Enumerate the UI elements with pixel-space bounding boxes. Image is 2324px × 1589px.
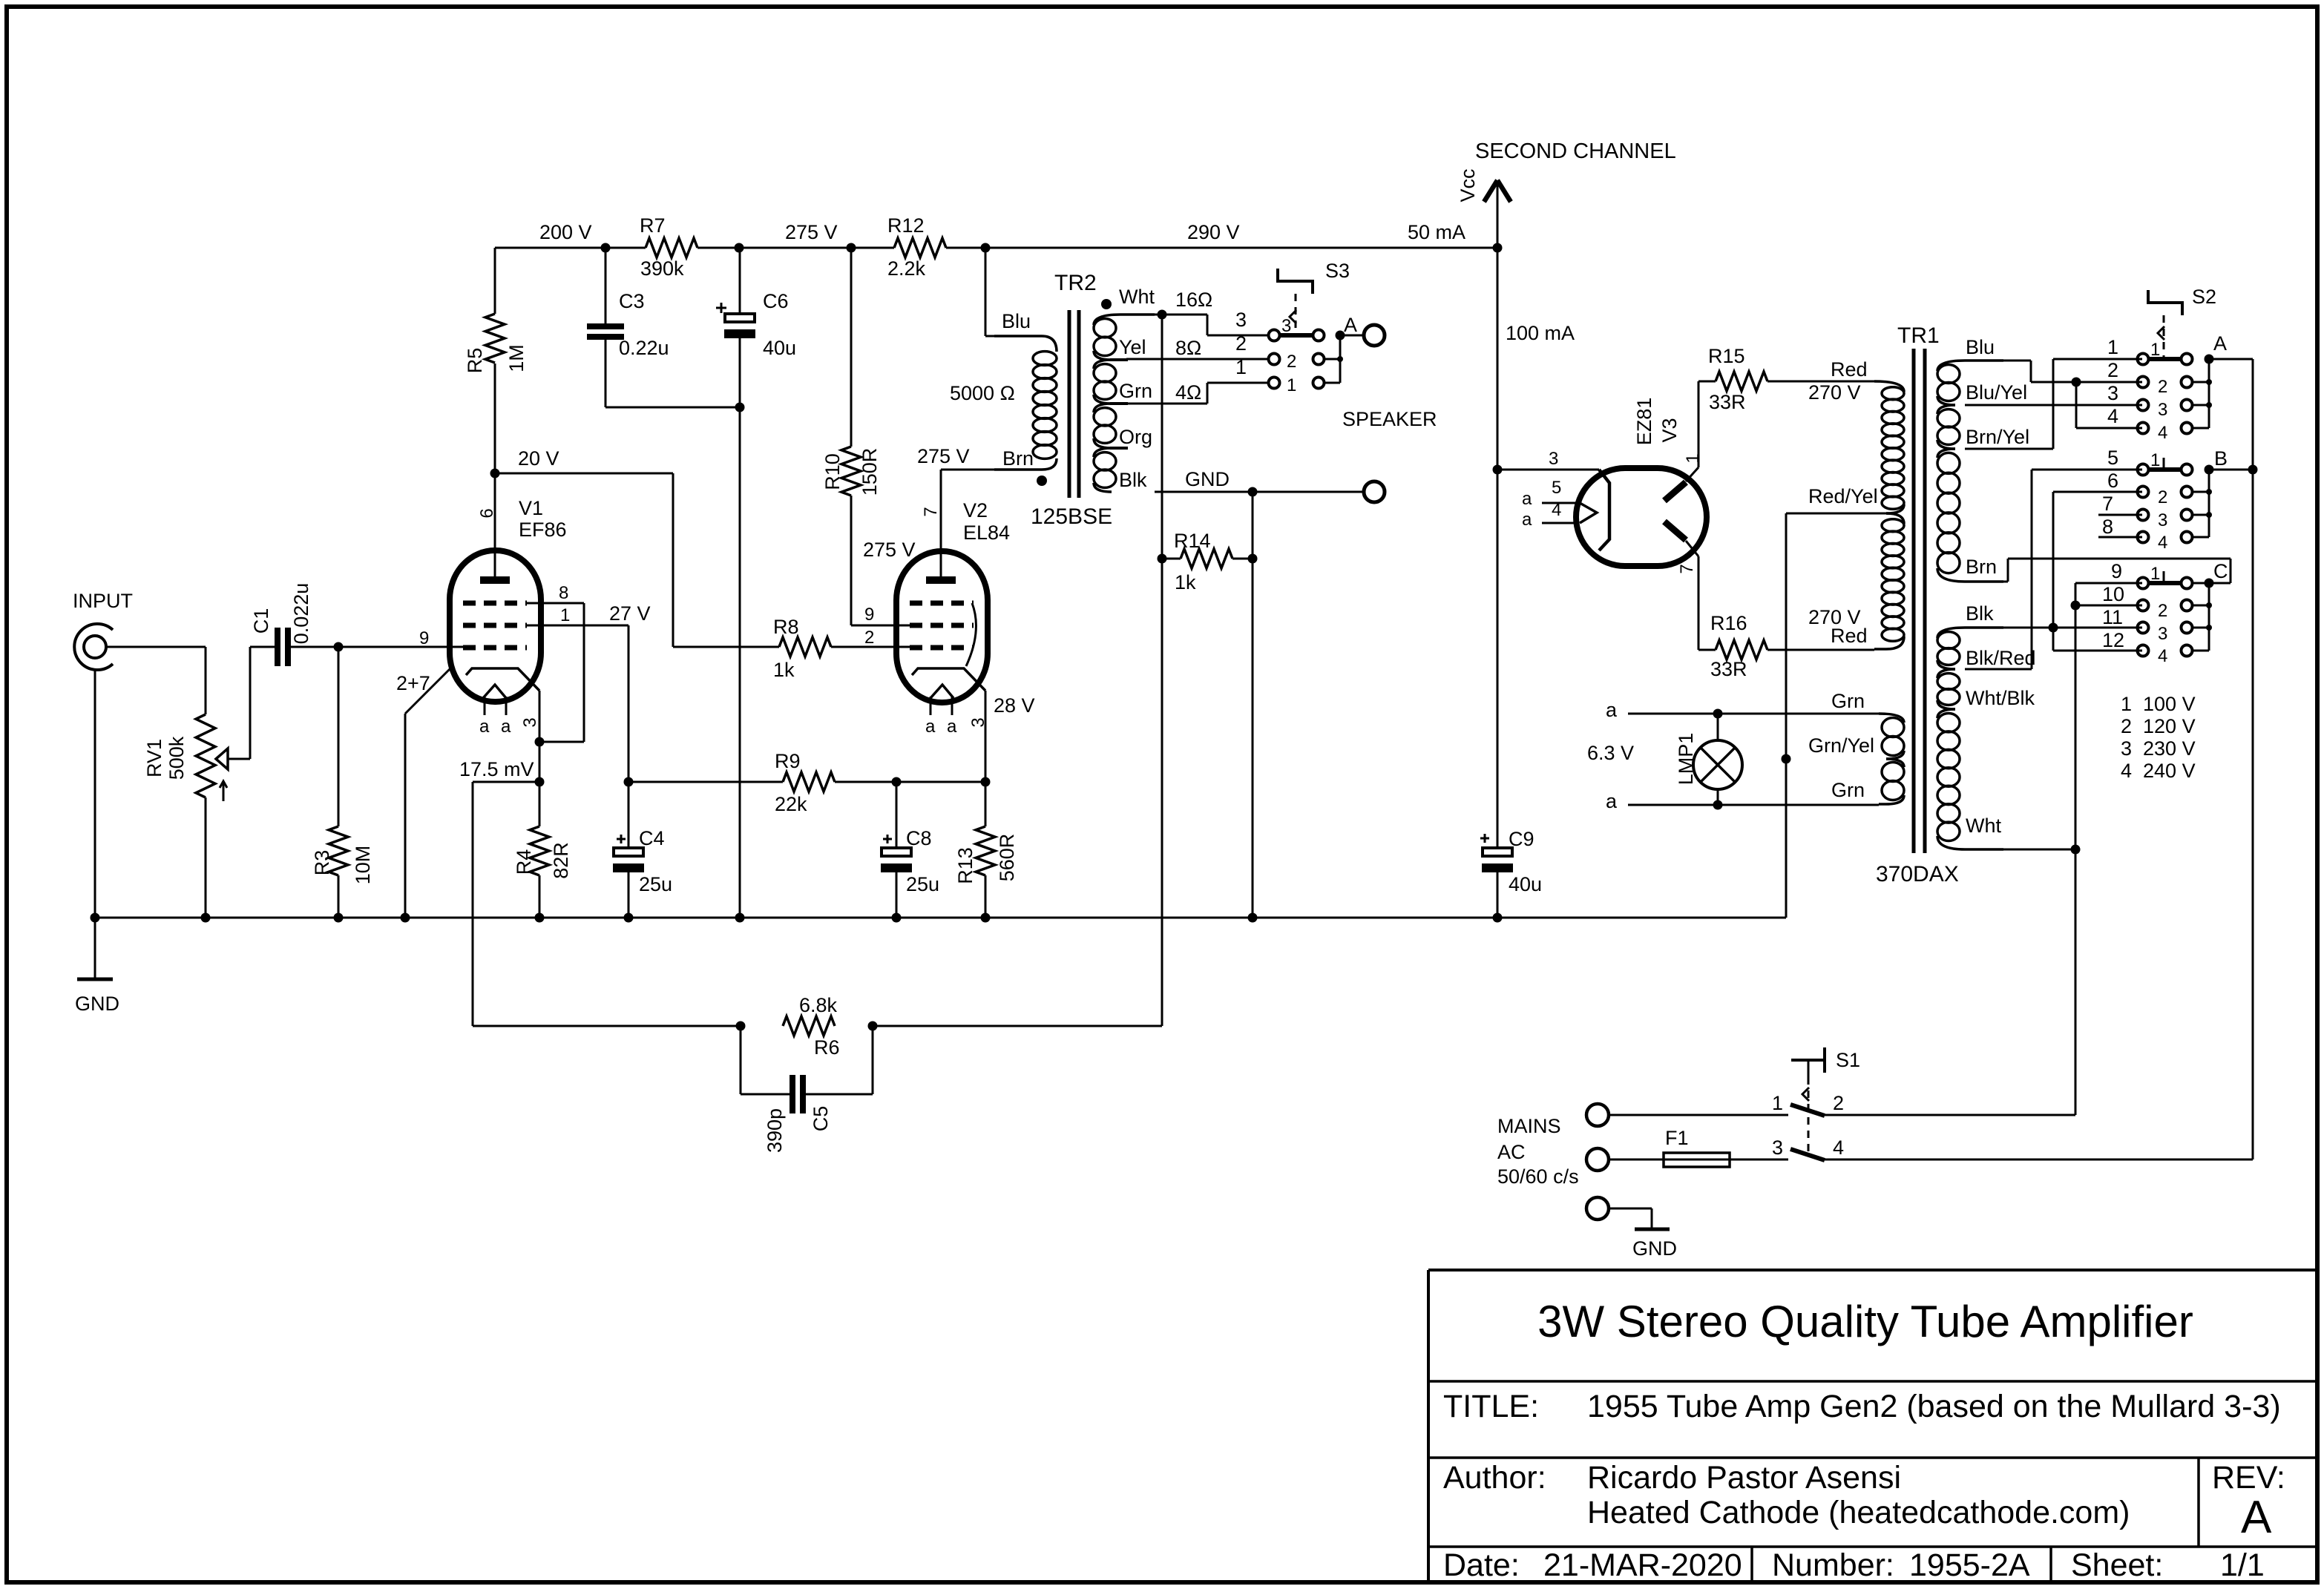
TR2 secondary tap Yel	[1110, 358, 1128, 361]
svg-text:RV1: RV1	[143, 739, 165, 777]
svg-text:4: 4	[2158, 533, 2167, 553]
svg-text:4: 4	[1552, 500, 1561, 520]
svg-text:500k: 500k	[165, 736, 188, 780]
V1 pin 8 wire	[526, 602, 584, 605]
svg-text:1: 1	[2107, 336, 2118, 358]
junction	[892, 913, 902, 923]
svg-text:EL84: EL84	[963, 522, 1010, 544]
wire C1 to V1 pin 9	[338, 646, 463, 648]
wire main ground rail	[95, 917, 1786, 919]
svg-text:Blu: Blu	[1002, 310, 1031, 332]
S2 block B left contacts	[2138, 464, 2149, 476]
svg-text:22k: 22k	[775, 793, 807, 815]
svg-text:25u: 25u	[906, 873, 939, 895]
resistor R14	[1162, 558, 1181, 560]
junction	[334, 913, 344, 923]
mains connector L	[1586, 1104, 1609, 1126]
svg-text:28 V: 28 V	[994, 694, 1035, 717]
svg-text:Red: Red	[1831, 625, 1868, 647]
TR1 mains winding 2	[1937, 628, 2003, 638]
svg-text:3: 3	[520, 717, 540, 727]
svg-text:3: 3	[1549, 449, 1558, 469]
capacitor C5	[740, 1026, 742, 1094]
S2 block B stub wires 7 8	[2098, 514, 2142, 516]
V1 anode plate pin 6	[494, 473, 496, 580]
wire 2+7 shield to ground	[405, 668, 450, 714]
S3 right contacts	[1313, 330, 1325, 341]
svg-text:GND: GND	[75, 993, 119, 1015]
mains connector N	[1586, 1148, 1609, 1171]
svg-text:4 240 V: 4 240 V	[2121, 760, 2196, 782]
TR1 heater winding	[1879, 714, 1904, 723]
svg-text:275 V: 275 V	[785, 221, 838, 243]
TR2 secondary tap Org stub	[1110, 447, 1128, 450]
V1 heater chevron	[483, 685, 506, 698]
junction	[2205, 355, 2214, 364]
junction	[1248, 487, 1258, 497]
svg-text:3: 3	[2158, 400, 2167, 420]
svg-text:1: 1	[1287, 375, 1296, 395]
svg-text:LMP1: LMP1	[1675, 733, 1697, 786]
junction	[735, 403, 745, 412]
svg-text:a: a	[1606, 699, 1618, 721]
svg-text:50/60 c/s: 50/60 c/s	[1497, 1165, 1579, 1188]
TR2 secondary phase dot	[1101, 299, 1112, 309]
svg-text:4Ω: 4Ω	[1175, 381, 1201, 404]
svg-text:9: 9	[864, 605, 874, 625]
lamp LMP1	[1717, 714, 1719, 740]
junction	[201, 913, 211, 923]
svg-text:8: 8	[559, 583, 568, 603]
V3 heater chevron	[1580, 503, 1597, 523]
resistor R8	[779, 637, 831, 657]
resistor R3	[338, 647, 340, 826]
junction	[1248, 913, 1258, 923]
TR2 primary winding 5000 ohm	[994, 336, 1057, 352]
resistor R12	[894, 238, 946, 257]
svg-text:S3: S3	[1325, 260, 1350, 282]
V3 anode plate top pin 1	[1664, 482, 1686, 501]
ground symbol GND input	[77, 978, 113, 981]
wire feedback from R6 to V1 cathode	[473, 781, 539, 783]
svg-text:C3: C3	[619, 290, 645, 312]
svg-text:R7: R7	[640, 214, 666, 237]
V1 grid g1 row	[463, 645, 527, 651]
svg-text:9: 9	[419, 628, 429, 648]
wire L to S1	[1609, 1114, 1788, 1116]
svg-text:Grn/Yel: Grn/Yel	[1808, 734, 1874, 757]
TR2 core	[1068, 310, 1071, 498]
svg-text:5: 5	[1552, 478, 1561, 498]
svg-text:40u: 40u	[1509, 873, 1542, 895]
wire fuse to S1	[1730, 1159, 1788, 1161]
wire Blu tie to row 4	[2075, 382, 2078, 428]
svg-text:9: 9	[2111, 560, 2122, 582]
svg-text:C5: C5	[810, 1106, 832, 1132]
resistor R6	[783, 1016, 835, 1036]
svg-text:1k: 1k	[773, 659, 795, 681]
svg-text:6: 6	[2107, 470, 2118, 492]
S3 output tie to jack A	[1324, 358, 1340, 361]
V1 grid g2 row	[463, 623, 527, 628]
wire 20V to R8	[495, 473, 673, 475]
svg-text:Red/Yel: Red/Yel	[1808, 485, 1878, 507]
svg-text:R12: R12	[887, 214, 925, 237]
svg-text:2: 2	[2107, 359, 2118, 381]
title block frame	[1428, 1269, 2317, 1271]
svg-text:3: 3	[2107, 382, 2118, 404]
svg-text:a: a	[501, 717, 511, 737]
svg-text:R10: R10	[821, 453, 844, 490]
mains connector E	[1586, 1197, 1609, 1220]
svg-text:2 120 V: 2 120 V	[2121, 715, 2196, 737]
junction	[490, 469, 500, 478]
ground symbol GND mains	[1635, 1228, 1670, 1231]
resistor R13	[985, 782, 987, 826]
svg-text:Brn: Brn	[1002, 447, 1034, 470]
tube V2 EL84	[896, 551, 988, 703]
svg-text:2: 2	[1833, 1092, 1844, 1114]
S1 pole B blade	[1790, 1149, 1825, 1160]
S3 left contacts	[1269, 330, 1280, 341]
svg-text:R9: R9	[775, 750, 801, 772]
svg-text:a: a	[1522, 489, 1532, 509]
svg-text:16Ω: 16Ω	[1175, 289, 1212, 311]
svg-text:Date:: Date:	[1443, 1547, 1520, 1583]
svg-text:4: 4	[2158, 423, 2167, 443]
svg-text:TR1: TR1	[1897, 323, 1940, 348]
svg-text:R13: R13	[954, 847, 976, 884]
switch S3 bracket	[1278, 269, 1313, 294]
V1 grid g3 row	[463, 601, 527, 606]
svg-text:S1: S1	[1836, 1049, 1860, 1071]
TR2 secondary tap Grn	[1110, 402, 1128, 405]
svg-text:a: a	[479, 717, 490, 737]
svg-text:560R: 560R	[996, 834, 1018, 882]
junction	[735, 243, 744, 253]
svg-text:40u: 40u	[763, 337, 796, 359]
svg-text:1: 1	[2150, 450, 2160, 470]
V1 heater pins a a	[484, 697, 486, 715]
svg-text:4: 4	[1833, 1136, 1844, 1159]
S1 pole A blade	[1790, 1105, 1825, 1116]
V2 heater pins a a	[930, 697, 932, 715]
wire ground rail riser to center taps	[1785, 513, 1788, 918]
svg-text:3 230 V: 3 230 V	[2121, 737, 2196, 760]
S2 block C left contacts	[2138, 578, 2149, 589]
svg-text:EF86: EF86	[519, 519, 567, 541]
svg-text:5000 Ω: 5000 Ω	[950, 382, 1015, 404]
svg-text:4: 4	[2107, 405, 2118, 427]
svg-text:Grn: Grn	[1119, 380, 1152, 402]
S2 block B blade	[2149, 467, 2182, 472]
TR2 secondary winding	[1094, 315, 1155, 325]
svg-text:R8: R8	[773, 616, 799, 638]
svg-text:12: 12	[2102, 629, 2124, 651]
svg-text:1: 1	[1235, 356, 1247, 378]
wire C6 ground drop	[739, 407, 741, 918]
junction	[1493, 243, 1503, 253]
wire Blu/Yel to row 3	[1965, 404, 2142, 407]
junction	[2071, 601, 2081, 611]
svg-text:SPEAKER: SPEAKER	[1342, 408, 1437, 430]
svg-text:6.3 V: 6.3 V	[1587, 742, 1634, 764]
resistor R10	[850, 248, 853, 447]
tube V1 EF86	[450, 550, 541, 702]
svg-text:A: A	[1344, 314, 1357, 336]
svg-text:Blk: Blk	[1119, 469, 1147, 491]
junction	[2205, 465, 2214, 475]
svg-text:1: 1	[1772, 1092, 1783, 1114]
svg-text:200 V: 200 V	[539, 221, 592, 243]
svg-text:100 mA: 100 mA	[1506, 322, 1575, 344]
resistor R7	[646, 238, 697, 257]
V3 anode plate bottom pin 7	[1664, 522, 1686, 540]
svg-text:Blk: Blk	[1966, 602, 1994, 625]
junction	[981, 243, 991, 253]
wire Blu from R12 junction to TR2	[985, 248, 987, 336]
svg-text:MAINS: MAINS	[1497, 1115, 1561, 1137]
wire 16ohm feedback drop	[1161, 315, 1163, 1026]
svg-text:1: 1	[2150, 340, 2160, 360]
svg-text:3W Stereo Quality Tube Amplifi: 3W Stereo Quality Tube Amplifier	[1537, 1297, 2193, 1346]
junction	[91, 913, 100, 923]
svg-text:C6: C6	[763, 290, 789, 312]
S2 block C right contacts	[2182, 578, 2193, 589]
wire Vcc feed down to C9	[1497, 248, 1499, 848]
capacitor C4	[628, 782, 630, 848]
svg-text:8Ω: 8Ω	[1175, 337, 1201, 359]
svg-text:Blu: Blu	[1966, 336, 1995, 358]
junction	[535, 737, 545, 747]
svg-text:Red: Red	[1831, 358, 1868, 381]
svg-text:2: 2	[2158, 601, 2167, 621]
V1 cathode	[466, 668, 539, 691]
svg-text:Wht: Wht	[1966, 815, 2002, 837]
resistor R15	[1716, 372, 1767, 391]
svg-text:1: 1	[1683, 453, 1703, 463]
svg-text:27 V: 27 V	[609, 602, 651, 625]
svg-text:TITLE:: TITLE:	[1443, 1389, 1539, 1424]
wire Blk to rows 6 11 12	[1965, 627, 2142, 629]
svg-text:R14: R14	[1174, 530, 1211, 552]
svg-text:3: 3	[1235, 309, 1247, 331]
junction	[1336, 331, 1345, 340]
svg-text:GND: GND	[1632, 1237, 1677, 1260]
svg-text:150R: 150R	[859, 448, 881, 496]
V1 pin 1 wire 27V	[526, 625, 628, 627]
svg-text:Wht: Wht	[1119, 286, 1155, 308]
svg-text:R6: R6	[814, 1036, 840, 1059]
capacitor C3	[605, 248, 607, 323]
speaker jack A	[1340, 335, 1364, 337]
svg-text:7: 7	[2102, 493, 2113, 515]
S2 block C blade	[2149, 581, 2182, 585]
junction	[624, 913, 634, 923]
S2 block A left contacts	[2138, 354, 2149, 365]
junction	[2205, 579, 2214, 588]
junction	[624, 777, 634, 787]
svg-text:A: A	[2241, 1492, 2272, 1543]
svg-text:Heated Cathode (heatedcathode.: Heated Cathode (heatedcathode.com)	[1587, 1495, 2130, 1530]
TR1 mains winding 1	[1937, 361, 2003, 371]
V1 pin 3 cathode wire	[539, 691, 541, 782]
wire Red/Yel center tap	[1786, 513, 1888, 515]
S3 blade	[1280, 333, 1313, 338]
svg-text:10M: 10M	[352, 846, 374, 885]
svg-text:1M: 1M	[505, 344, 528, 372]
wire S1 pole A to Wht riser	[1825, 1114, 2075, 1116]
svg-text:33R: 33R	[1709, 391, 1746, 413]
svg-text:3: 3	[1281, 316, 1291, 336]
svg-text:S2: S2	[2192, 286, 2216, 308]
capacitor C8	[896, 782, 898, 848]
svg-text:R3: R3	[311, 850, 333, 876]
wire B output	[2209, 469, 2253, 471]
junction	[535, 913, 545, 923]
svg-text:a: a	[1522, 510, 1532, 530]
junction	[892, 777, 902, 787]
junction	[868, 1021, 878, 1031]
input jack J1	[74, 624, 113, 670]
S2 block B right contacts	[2182, 464, 2193, 476]
fuse F1	[1664, 1153, 1730, 1167]
svg-text:8: 8	[2102, 516, 2113, 538]
svg-text:82R: 82R	[550, 842, 572, 879]
resistor R9	[628, 781, 783, 783]
junction	[2072, 378, 2081, 387]
svg-text:20 V: 20 V	[518, 447, 559, 470]
svg-text:C1: C1	[250, 608, 272, 634]
svg-text:270 V: 270 V	[1808, 381, 1861, 404]
junction	[1493, 913, 1503, 923]
wire Blk/Red to row 5	[1965, 668, 2032, 671]
svg-text:390k: 390k	[640, 257, 684, 280]
junction	[2049, 623, 2058, 633]
svg-text:TR2: TR2	[1054, 271, 1097, 295]
junction	[1713, 800, 1723, 810]
svg-text:Number:: Number:	[1772, 1547, 1894, 1583]
svg-text:10: 10	[2102, 583, 2124, 605]
svg-text:Grn: Grn	[1831, 779, 1865, 801]
svg-text:a: a	[925, 717, 936, 737]
S3 linkage dashed	[1295, 294, 1297, 333]
junction	[2071, 845, 2081, 855]
junction	[847, 243, 856, 253]
svg-text:Grn: Grn	[1831, 690, 1865, 712]
svg-text:0.022u: 0.022u	[290, 583, 312, 645]
svg-text:C8: C8	[906, 827, 932, 849]
svg-text:B: B	[2214, 447, 2228, 470]
svg-text:390p: 390p	[764, 1108, 786, 1153]
svg-text:33R: 33R	[1710, 658, 1747, 680]
svg-text:Brn/Yel: Brn/Yel	[1966, 426, 2029, 448]
switch S2 bracket	[2148, 290, 2182, 315]
junction	[981, 777, 991, 787]
wire S1 pole B to B-output riser	[1825, 1159, 2253, 1161]
svg-text:A: A	[2213, 332, 2227, 355]
S2 block A blade	[2149, 357, 2182, 361]
svg-text:1k: 1k	[1175, 571, 1196, 593]
svg-text:a: a	[1606, 790, 1618, 812]
wire Wht to rows 9 10	[1965, 849, 2075, 851]
S2 block B output tie	[2193, 491, 2209, 493]
svg-text:17.5 mV: 17.5 mV	[459, 758, 534, 780]
svg-text:V2: V2	[963, 499, 988, 522]
V2 cathode	[912, 668, 985, 691]
wire C3 to C6 bottom link	[605, 407, 740, 409]
svg-text:370DAX: 370DAX	[1876, 862, 1959, 886]
junction	[1493, 465, 1503, 475]
junction	[735, 913, 745, 923]
svg-text:Vcc: Vcc	[1457, 168, 1479, 202]
svg-text:7: 7	[921, 507, 941, 516]
svg-text:C9: C9	[1509, 828, 1534, 850]
svg-text:2: 2	[2158, 377, 2167, 397]
svg-text:REV:: REV:	[2212, 1460, 2285, 1496]
svg-text:1955 Tube Amp Gen2 (based on t: 1955 Tube Amp Gen2 (based on the Mullard…	[1587, 1389, 2281, 1424]
V2 internal g3 to cathode link	[966, 603, 976, 666]
svg-text:3: 3	[2158, 624, 2167, 644]
input shell ground wire	[94, 670, 96, 979]
junction	[1713, 709, 1723, 719]
junction	[401, 913, 410, 923]
junction	[2248, 465, 2258, 475]
capacitor C6	[739, 248, 741, 314]
resistor R16	[1716, 640, 1767, 659]
svg-text:R15: R15	[1708, 345, 1745, 367]
TR1 HV winding lower	[1886, 513, 1904, 524]
wire A output	[2209, 358, 2253, 361]
junction	[736, 1021, 746, 1031]
junction	[334, 642, 344, 652]
svg-text:2+7: 2+7	[396, 672, 430, 694]
wire Brn to V2 anode	[941, 469, 996, 471]
svg-text:Blk/Red: Blk/Red	[1966, 647, 2036, 669]
capacitor C9	[1483, 848, 1512, 856]
svg-text:2: 2	[864, 628, 874, 648]
svg-text:GND: GND	[1185, 468, 1230, 490]
svg-text:R4: R4	[513, 849, 535, 875]
svg-text:C4: C4	[639, 827, 665, 849]
svg-text:275 V: 275 V	[917, 445, 970, 467]
wire Brn overhead to block C	[1965, 581, 2008, 583]
svg-text:2: 2	[1235, 332, 1247, 355]
wire V3 pin 3 from Vcc	[1497, 469, 1599, 471]
svg-text:5: 5	[2107, 447, 2118, 469]
svg-text:6: 6	[477, 508, 497, 518]
S2 block A output tie	[2193, 381, 2209, 384]
svg-text:4: 4	[2158, 646, 2167, 666]
resistor R4	[539, 782, 541, 826]
svg-text:125BSE: 125BSE	[1031, 504, 1112, 529]
svg-text:Ricardo Pastor Asensi: Ricardo Pastor Asensi	[1587, 1460, 1901, 1496]
potentiometer RV1	[196, 714, 215, 797]
svg-text:50 mA: 50 mA	[1408, 221, 1465, 243]
junction	[535, 777, 545, 787]
S2 block A right contacts	[2182, 354, 2193, 365]
svg-text:R5: R5	[464, 348, 486, 374]
svg-text:11: 11	[2102, 606, 2123, 628]
wire 200V/275V/290V top supply rail	[495, 247, 646, 249]
svg-text:Author:: Author:	[1443, 1460, 1546, 1496]
junction	[1158, 554, 1167, 564]
junction	[1158, 310, 1167, 320]
junction	[1782, 754, 1791, 764]
resistor R5	[494, 248, 496, 314]
S2 linkage dashed	[2163, 315, 2165, 357]
svg-text:EZ81: EZ81	[1633, 398, 1655, 446]
